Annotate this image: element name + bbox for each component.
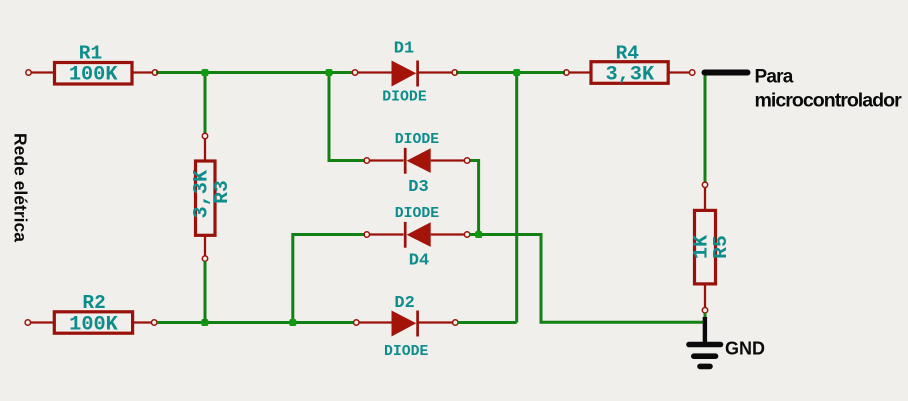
- svg-text:3,3K: 3,3K: [605, 64, 655, 87]
- svg-text:DIODE: DIODE: [384, 344, 429, 360]
- wire: R1 right pin stub: [132, 71, 152, 73]
- resistor R5: [695, 210, 716, 284]
- node: D4 anode pin circle: [364, 232, 369, 237]
- node: D2 anode pin circle: [354, 320, 359, 325]
- diode D4 (points left): [407, 222, 431, 247]
- wire: bottom net R2 to D2: [157, 321, 354, 324]
- svg-text:DIODE: DIODE: [395, 206, 440, 222]
- junction: D3/D4 cathode node: [475, 231, 482, 238]
- wire: R4 output down to R5 top: [704, 73, 707, 184]
- svg-text:R5: R5: [710, 235, 732, 258]
- node: R4 right pin circle: [690, 70, 695, 75]
- wire: R3 bottom to bottom net: [204, 261, 207, 322]
- diode D1 cathode bar: [416, 61, 419, 87]
- junction: bottom node at D4 branch: [289, 319, 296, 326]
- node: R5 top pin circle: [702, 182, 707, 187]
- svg-text:Para: Para: [755, 67, 794, 88]
- junction: bottom node at R3 branch: [201, 319, 208, 326]
- wire: R5 bottom to ground: [704, 313, 707, 323]
- node: R5 bottom pin circle: [702, 308, 707, 313]
- resistor R4: [591, 62, 668, 84]
- wire: thick black output stub (to microcontroller): [705, 70, 748, 76]
- node: R3 bottom pin circle: [202, 256, 207, 261]
- diode D1 (points right): [392, 61, 417, 87]
- node: R2 right pin circle: [152, 320, 157, 325]
- wire: D1 anode stub: [358, 71, 392, 73]
- svg-text:D1: D1: [394, 40, 414, 59]
- wire: R5 top pin stub: [704, 188, 706, 211]
- wire: vertical from D1/R4 node down to bottom row: [515, 73, 518, 323]
- wire: D2 cathode stub: [418, 321, 453, 323]
- wire: R3 bottom pin stub: [204, 235, 206, 256]
- node: D4 cathode pin circle: [464, 232, 469, 237]
- svg-text:R1: R1: [79, 43, 102, 65]
- svg-text:GND: GND: [725, 339, 765, 359]
- svg-text:DIODE: DIODE: [382, 90, 427, 106]
- wire: AC input top net (green, R1 output to D1 anode): [156, 71, 353, 74]
- svg-text:R3: R3: [211, 180, 233, 203]
- node: R1 right pin circle: [152, 70, 157, 75]
- wire: vertical from top node down to R3 top: [204, 73, 207, 135]
- node: R4 left pin circle: [564, 70, 569, 75]
- wire: R1 left pin stub: [31, 71, 54, 73]
- wire: D3 anode stub: [431, 159, 465, 161]
- wire: D4 cathode stub: [431, 233, 465, 235]
- svg-text:R2: R2: [82, 292, 105, 314]
- wire: D3 cathode to vertical branch: [470, 161, 479, 235]
- diode D2 cathode bar: [416, 311, 419, 337]
- diode D3 cathode bar (points left): [404, 148, 407, 174]
- svg-text:D4: D4: [409, 251, 429, 270]
- node: R1 left pin circle: [26, 70, 31, 75]
- wire: vertical from top node down to D3 anode: [329, 73, 365, 161]
- svg-text:100K: 100K: [69, 64, 119, 87]
- wire: D4/D3 node to GND rail: [470, 235, 704, 323]
- junction: top node at D3 branch: [326, 69, 333, 76]
- svg-text:Rede elétrica: Rede elétrica: [11, 133, 31, 242]
- junction: top node at R3 branch: [202, 69, 209, 76]
- svg-text:microcontrolador: microcontrolador: [755, 90, 903, 112]
- wire: bottom row up to D4 anode: [293, 235, 365, 323]
- node: D3 anode pin circle: [464, 158, 469, 163]
- resistor R3: [196, 161, 216, 235]
- diode D3 (points left): [407, 148, 431, 173]
- wire: R3 top pin stub: [204, 139, 206, 161]
- svg-text:R4: R4: [616, 43, 640, 65]
- node: D3 cathode pin circle: [364, 158, 369, 163]
- node: D1 cathode pin circle: [452, 70, 457, 75]
- wire: D2 anode stub: [359, 321, 392, 323]
- wire: D2 cathode to riser: [458, 321, 517, 324]
- diode D4 cathode bar (points left): [404, 222, 407, 248]
- wire: D1 cathode to R4 (green): [456, 71, 565, 74]
- wire: R4 left pin stub: [569, 71, 591, 73]
- wire: D1 cathode stub: [418, 71, 453, 73]
- junction: D1 cathode / output node: [513, 69, 520, 76]
- wire: R4 right pin stub: [668, 71, 689, 73]
- svg-text:DIODE: DIODE: [395, 132, 440, 148]
- svg-text:D2: D2: [394, 294, 414, 313]
- resistor R2: [54, 312, 132, 333]
- node: D1 anode pin circle: [352, 70, 357, 75]
- resistor R1: [55, 63, 133, 85]
- wire: R5 bottom pin stub: [704, 284, 706, 308]
- wire: R2 right pin stub: [133, 321, 152, 323]
- node: R2 left pin circle: [25, 320, 30, 325]
- wire: D3 cathode stub: [370, 159, 404, 161]
- wire: R2 left pin stub: [31, 321, 55, 323]
- ground GND symbol: [689, 317, 721, 366]
- diode D2 (points right): [392, 311, 417, 337]
- wire: D4 anode stub: [370, 233, 404, 235]
- svg-text:100K: 100K: [69, 313, 119, 336]
- node: D2 cathode pin circle: [453, 320, 458, 325]
- node: R3 top pin circle: [202, 133, 207, 138]
- svg-text:D3: D3: [408, 178, 428, 197]
